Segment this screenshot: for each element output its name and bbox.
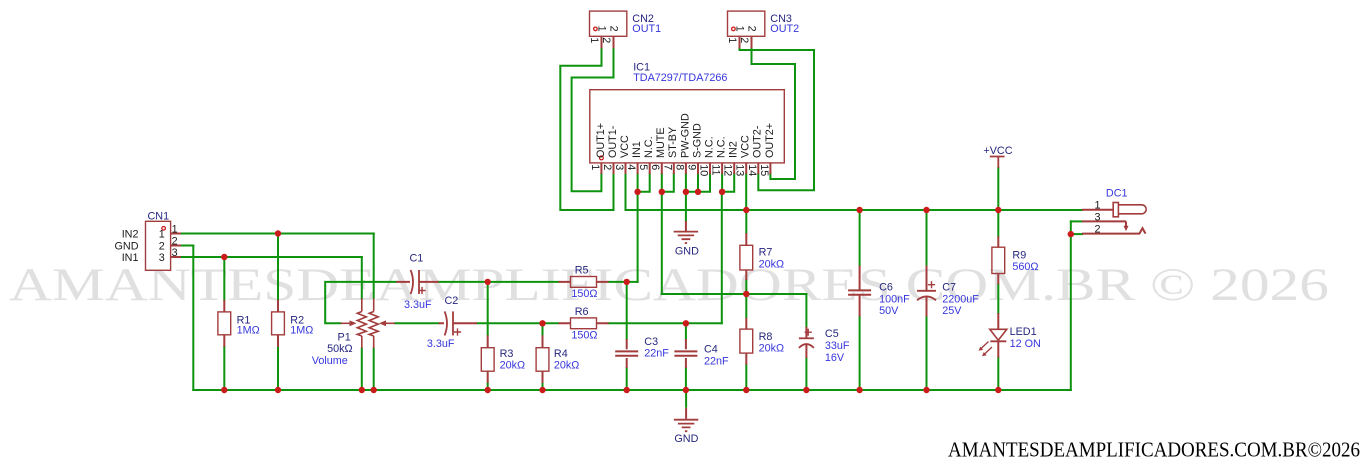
svg-text:MUTE: MUTE <box>655 127 667 158</box>
junction CN1.3/R1 <box>221 254 227 260</box>
svg-text:DC1: DC1 <box>1106 187 1128 199</box>
svg-text:Volume: Volume <box>312 355 348 367</box>
resistor R5 <box>559 281 609 283</box>
junction rail/C3 <box>624 387 630 393</box>
CN3 pin stubs <box>740 36 752 48</box>
junction IC pin4/pin5 <box>634 189 640 195</box>
wire P1 left gang bottom <box>361 348 363 390</box>
capacitor C5 <box>805 327 807 358</box>
junction VCC rail/pin13/R7 <box>743 207 749 213</box>
svg-text:AMANTESDEAMPLIFICADORES.COM.BR: AMANTESDEAMPLIFICADORES.COM.BR © 2026 <box>9 259 1329 311</box>
wire IC pin11 drop <box>721 174 723 192</box>
junction rail/R2 <box>275 387 281 393</box>
CN2 pin stubs <box>602 36 614 48</box>
junction rail/R3 <box>485 387 491 393</box>
wire GND bottom rail <box>193 389 1071 391</box>
P1 right wiper arrow <box>385 322 396 324</box>
wire IC pin7 tie to pin6 <box>662 174 674 192</box>
wire DC1 pin3 stub <box>1071 220 1082 222</box>
wire R7 bottom <box>745 280 747 294</box>
wire DC1 pin2 stub <box>1071 233 1082 235</box>
CN3 pin-1 indicator circle <box>732 27 736 31</box>
potentiometer P1 right gang <box>369 299 378 349</box>
wire R1 bottom <box>223 347 225 390</box>
svg-text:TDA7297/TDA7266: TDA7297/TDA7266 <box>633 72 727 84</box>
wire C6 top <box>859 210 861 266</box>
svg-text:2: 2 <box>172 236 178 248</box>
connector CN1 body <box>146 221 171 270</box>
wire IC pin5 tie to pin4 <box>638 174 650 192</box>
svg-text:GND: GND <box>115 241 139 253</box>
wire CN3.1 to IC pin14 (OUT2-) <box>740 48 815 190</box>
op-amp/IC U1 IC1 TDA7297 body <box>590 90 785 163</box>
svg-text:PW-GND: PW-GND <box>679 113 691 158</box>
svg-text:LED1: LED1 <box>1010 326 1037 338</box>
IC1 pin stubs <box>601 163 770 174</box>
wire CN2.2 to IC pin1 (OUT1+) <box>572 48 614 191</box>
svg-text:50kΩ: 50kΩ <box>327 343 352 355</box>
junction IC pin8 <box>683 189 689 195</box>
svg-text:IN1: IN1 <box>122 252 139 264</box>
junction DC1 pins 2-3 <box>1068 231 1074 237</box>
wire C5 bottom <box>805 358 807 390</box>
junction standby node R7/R8 <box>743 291 749 297</box>
svg-text:3: 3 <box>172 247 178 259</box>
wire P1 left wiper to C1 <box>325 282 396 323</box>
svg-text:OUT1: OUT1 <box>632 23 661 35</box>
resistor R8 <box>745 318 747 365</box>
svg-text:OUT2+: OUT2+ <box>764 123 776 158</box>
wire R1 top <box>223 257 225 300</box>
wire IC pin13 to VCC rail <box>745 174 747 210</box>
svg-text:OUT1+: OUT1+ <box>595 123 607 158</box>
svg-text:R6: R6 <box>575 306 589 318</box>
junction rail/C7 <box>923 387 929 393</box>
svg-text:1: 1 <box>734 26 746 32</box>
wire IC pin4 drop <box>637 174 639 192</box>
svg-text:100nF: 100nF <box>879 293 910 305</box>
svg-text:3.3uF: 3.3uF <box>404 299 432 311</box>
wire C5 top <box>805 294 807 327</box>
svg-text:8: 8 <box>673 164 685 170</box>
svg-text:560Ω: 560Ω <box>1012 261 1038 273</box>
svg-text:GND: GND <box>674 433 698 445</box>
svg-text:ST-BY: ST-BY <box>667 127 679 158</box>
svg-text:R3: R3 <box>500 348 514 360</box>
svg-text:4: 4 <box>625 164 637 170</box>
svg-text:3: 3 <box>613 164 625 170</box>
wire C3 bottom <box>626 368 628 390</box>
svg-text:1: 1 <box>589 164 601 170</box>
svg-text:N.C.: N.C. <box>643 136 655 158</box>
wire IC pins 8-9-10 tie <box>686 174 710 192</box>
junction CN1.1/R2 <box>275 230 281 236</box>
wire IN1 down to P1 left gang top <box>361 257 363 299</box>
wire up to IC pins 4/5 <box>637 192 639 282</box>
CN1 pin-1 indicator circle <box>162 227 166 231</box>
svg-text:2: 2 <box>1094 224 1100 236</box>
junction VCC rail/+VCC/R9 <box>995 207 1001 213</box>
svg-text:IN2: IN2 <box>122 229 139 241</box>
svg-text:6: 6 <box>649 164 661 170</box>
junction rail/C6 <box>856 387 862 393</box>
wire C4 bottom <box>685 368 687 390</box>
svg-text:10: 10 <box>698 164 710 176</box>
wire R9 to LED <box>997 284 999 313</box>
resistor R4 <box>542 335 544 383</box>
junction IC pin9 <box>695 189 701 195</box>
wire R5 to IN1 pin net <box>609 281 638 283</box>
svg-text:2: 2 <box>608 26 620 32</box>
CN1 pin stubs <box>171 234 181 258</box>
C2 plus sign <box>454 328 461 335</box>
wire standby node horizontal <box>662 293 807 295</box>
svg-text:IN2: IN2 <box>728 141 740 158</box>
capacitor C1 <box>396 281 438 283</box>
svg-text:20kΩ: 20kΩ <box>554 359 579 371</box>
wire C2 to R6 <box>477 322 559 324</box>
LED LED1 <box>997 313 999 329</box>
svg-text:OUT1-: OUT1- <box>607 125 619 158</box>
LED1 emission arrows <box>980 342 992 356</box>
svg-text:CN1: CN1 <box>148 211 170 223</box>
svg-text:14: 14 <box>746 164 758 176</box>
wire CN2.1 to IC pin2 (OUT1-) <box>560 48 613 210</box>
svg-text:C3: C3 <box>644 336 658 348</box>
svg-text:IN1: IN1 <box>631 141 643 158</box>
svg-text:N.C.: N.C. <box>703 136 715 158</box>
junction IC pin6/pin7 <box>659 189 665 195</box>
C5 plus sign <box>805 329 812 336</box>
svg-text:P1: P1 <box>338 332 351 344</box>
junction IC pin11/pin12 <box>719 189 725 195</box>
svg-text:2: 2 <box>600 37 612 43</box>
DC1 pin 2 switch contact <box>1082 228 1146 233</box>
wire CN1.1 (IN2) horizontal <box>181 233 374 235</box>
svg-text:2: 2 <box>738 37 750 43</box>
svg-text:C7: C7 <box>942 282 956 294</box>
svg-text:12: 12 <box>722 164 734 176</box>
capacitor C6 <box>859 266 861 317</box>
junction R5/C3 <box>624 279 630 285</box>
svg-text:VCC: VCC <box>619 135 631 158</box>
wire VCC rail (IC pin3 to DC1) <box>626 174 1083 210</box>
wire DC1 pin3 to pin2 <box>1070 221 1072 234</box>
resistor R9 <box>997 236 999 284</box>
connector CN3 body <box>728 11 765 36</box>
wire DC1 ground drop <box>1070 234 1072 390</box>
svg-text:50V: 50V <box>879 305 899 317</box>
wire R3 bottom <box>487 383 489 390</box>
junction rail/P1 left <box>359 387 365 393</box>
junction C1-R5/R3 <box>485 279 491 285</box>
svg-text:1MΩ: 1MΩ <box>237 325 260 337</box>
svg-text:20kΩ: 20kΩ <box>759 259 784 271</box>
svg-text:1: 1 <box>1094 200 1100 212</box>
svg-text:15: 15 <box>758 164 770 176</box>
wire IC pin9 drop <box>697 174 699 192</box>
wire R4 bottom <box>542 383 544 390</box>
svg-text:N.C.: N.C. <box>716 136 728 158</box>
svg-text:OUT2-: OUT2- <box>752 125 764 158</box>
wire CN3.2 to IC pin15 (OUT2+) <box>752 48 796 179</box>
svg-text:1: 1 <box>596 26 608 32</box>
wire R2 bottom <box>277 347 279 390</box>
svg-text:+VCC: +VCC <box>983 145 1012 157</box>
resistor R3 <box>487 335 489 383</box>
wire GND left vertical <box>192 246 194 391</box>
wire LED cathode to rail <box>997 358 999 390</box>
svg-text:C6: C6 <box>879 282 893 294</box>
wire IN2 down to P1 right gang top <box>373 234 375 299</box>
power symbol +VCC <box>990 157 1005 168</box>
wire C6 bottom <box>859 317 861 391</box>
svg-text:C1: C1 <box>410 253 424 265</box>
wire C7 top <box>926 210 928 266</box>
svg-text:2: 2 <box>601 164 613 170</box>
junction VCC rail/C7 <box>923 207 929 213</box>
potentiometer P1 left gang <box>357 299 366 349</box>
junction VCC rail/C6 <box>856 207 862 213</box>
junction C2-R6/R4 <box>539 320 545 326</box>
svg-text:OUT2: OUT2 <box>770 23 799 35</box>
wire R4 top <box>542 323 544 335</box>
capacitor C2 <box>439 322 477 324</box>
capacitor C3 <box>626 339 628 368</box>
svg-text:11: 11 <box>710 164 722 175</box>
junction rail/R1 <box>221 387 227 393</box>
wire R6 to IN2 pin net <box>609 322 722 324</box>
svg-text:7: 7 <box>661 164 673 170</box>
P1 left wiper arrow <box>341 322 352 324</box>
wire R2 top <box>277 234 279 300</box>
wire CN1.3 (IN1) horizontal <box>181 256 362 258</box>
C1 plus sign <box>418 287 425 294</box>
resistor R6 <box>559 322 609 324</box>
wire C7 bottom <box>926 317 928 391</box>
junction R6/C4 <box>683 320 689 326</box>
wire IC pin6 drop to standby node <box>661 174 663 294</box>
connector DC1 power jack <box>1082 209 1113 211</box>
svg-text:12 ON: 12 ON <box>1010 338 1041 350</box>
junction rail/LED1 <box>995 387 1001 393</box>
junction rail/C4/GND <box>683 387 689 393</box>
svg-text:3.3uF: 3.3uF <box>427 338 455 350</box>
wire IC pin12 tie to pin11 <box>722 174 734 192</box>
svg-text:16V: 16V <box>825 352 845 364</box>
wire +VCC to rail <box>997 168 999 210</box>
svg-text:3: 3 <box>1094 211 1100 223</box>
ground symbol (IC power ground) <box>685 221 687 232</box>
C7 plus sign <box>928 281 935 288</box>
svg-text:S-GND: S-GND <box>691 123 703 158</box>
ground symbol (bottom rail) <box>685 390 687 408</box>
svg-text:GND: GND <box>675 246 699 258</box>
svg-text:20kΩ: 20kΩ <box>759 343 784 355</box>
resistor R7 <box>745 233 747 280</box>
wire R7 top <box>745 210 747 233</box>
svg-text:33uF: 33uF <box>825 340 850 352</box>
svg-text:VCC: VCC <box>740 135 752 158</box>
junction rail/R8 <box>743 387 749 393</box>
svg-text:2200uF: 2200uF <box>942 293 979 305</box>
svg-text:AMANTESDEAMPLIFICADORES.COM.BR: AMANTESDEAMPLIFICADORES.COM.BR©2026 <box>948 439 1360 460</box>
resistor R2 <box>277 300 279 347</box>
svg-text:3: 3 <box>159 252 165 264</box>
svg-text:C4: C4 <box>704 344 718 356</box>
svg-text:R8: R8 <box>759 331 773 343</box>
svg-text:150Ω: 150Ω <box>571 288 597 300</box>
svg-text:C2: C2 <box>445 295 459 307</box>
svg-text:C5: C5 <box>825 328 839 340</box>
wire R3 top <box>487 282 489 335</box>
wire C1 to R5 <box>439 281 559 283</box>
svg-text:R7: R7 <box>759 247 773 259</box>
svg-text:1MΩ: 1MΩ <box>290 325 313 337</box>
wire C3 top <box>626 282 628 339</box>
wire CN1.2 (GND) stub right <box>181 245 193 247</box>
wire R9 top <box>997 210 999 236</box>
CN2 pin-1 indicator circle <box>594 27 598 31</box>
svg-text:25V: 25V <box>942 305 962 317</box>
capacitor C4 <box>685 339 687 368</box>
svg-text:150Ω: 150Ω <box>571 330 597 342</box>
svg-text:2: 2 <box>159 240 165 252</box>
svg-text:2: 2 <box>746 26 758 32</box>
svg-text:R9: R9 <box>1012 249 1026 261</box>
wire R8 bottom <box>745 365 747 390</box>
junction rail/R4 <box>539 387 545 393</box>
svg-text:1: 1 <box>726 37 738 43</box>
svg-text:22nF: 22nF <box>644 348 669 360</box>
resistor R1 <box>223 300 225 347</box>
svg-text:R5: R5 <box>575 265 589 277</box>
wire P1 right gang bottom <box>373 348 375 390</box>
connector CN2 body <box>590 11 627 36</box>
IC1 pin-1 indicator circle <box>600 156 604 160</box>
DC1 pin 3 switch arm <box>1082 221 1126 226</box>
svg-text:20kΩ: 20kΩ <box>500 359 525 371</box>
svg-text:1: 1 <box>172 224 178 236</box>
capacitor C7 <box>926 266 928 317</box>
wire R8 top <box>745 294 747 318</box>
wire IC pin8 drop to GND <box>685 174 687 221</box>
wire up to IC pins 11/12 <box>721 192 723 323</box>
svg-text:1: 1 <box>588 37 600 43</box>
junction rail/P1 right <box>371 387 377 393</box>
svg-text:R4: R4 <box>554 348 568 360</box>
svg-text:13: 13 <box>734 164 746 176</box>
wire P1 right wiper to C2 <box>395 322 439 324</box>
svg-text:22nF: 22nF <box>704 356 729 368</box>
svg-text:5: 5 <box>637 164 649 170</box>
wire C4 top <box>685 323 687 339</box>
svg-text:9: 9 <box>686 164 698 170</box>
junction rail/C5 <box>803 387 809 393</box>
svg-text:1: 1 <box>159 228 165 240</box>
